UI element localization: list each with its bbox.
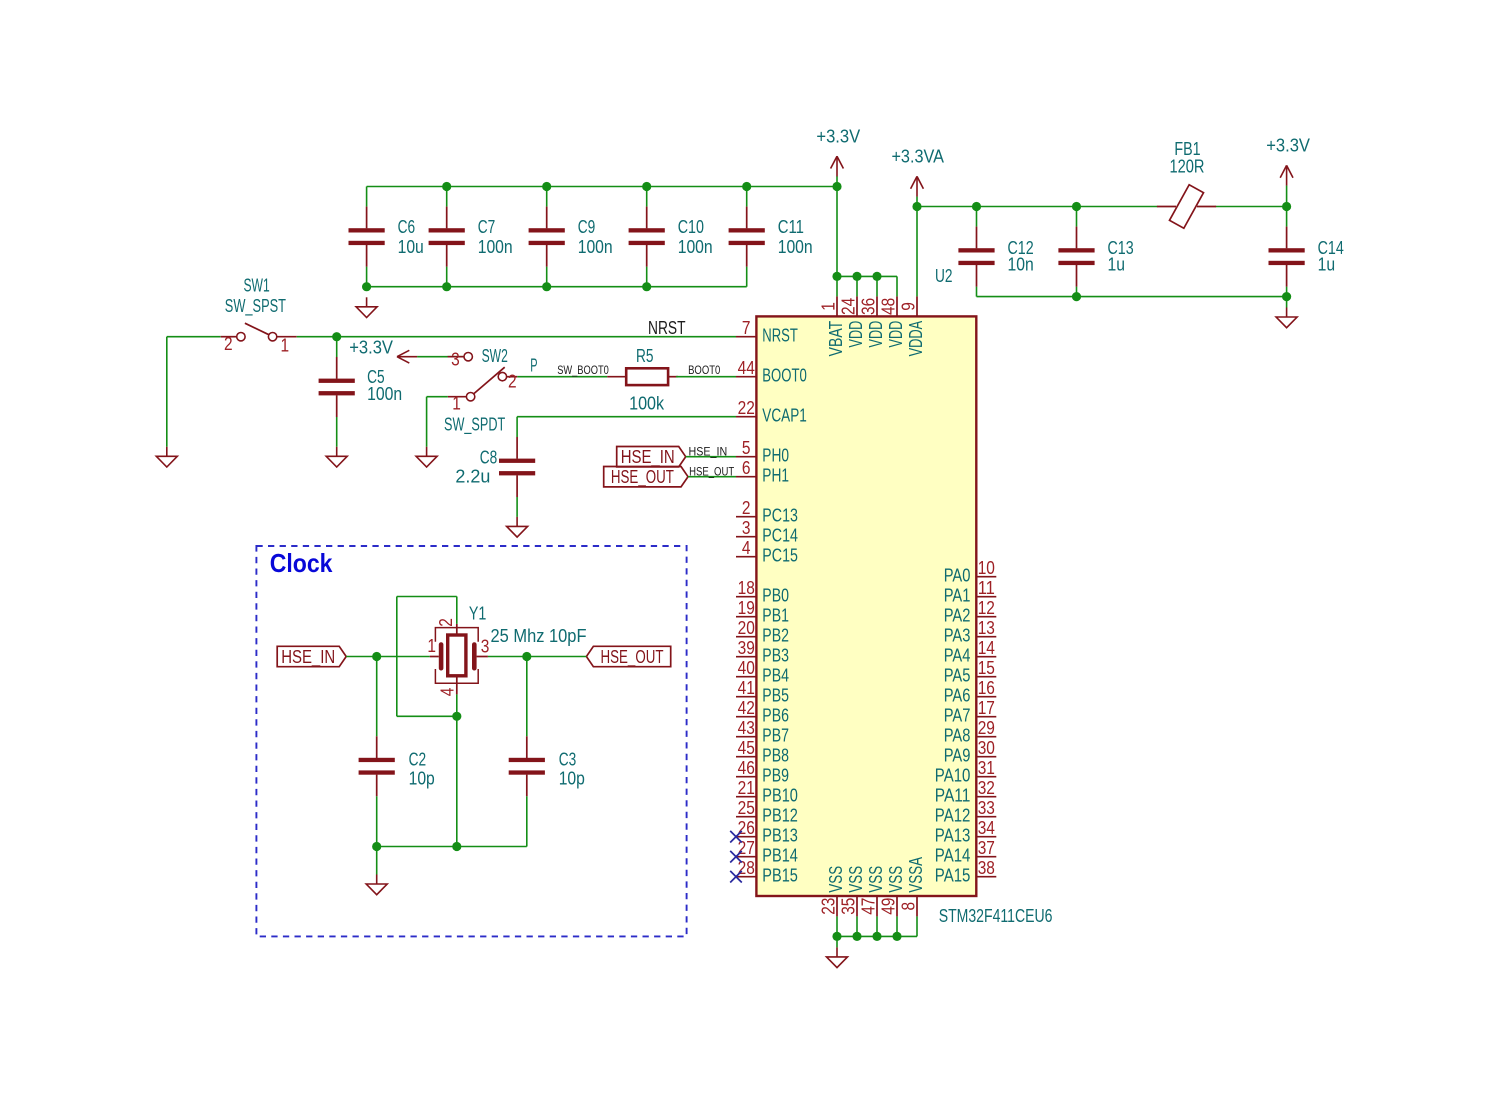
pin 8 VSSA <box>898 857 926 916</box>
svg-text:100n: 100n <box>367 384 402 404</box>
svg-text:34: 34 <box>978 818 995 838</box>
svg-text:10p: 10p <box>409 768 435 788</box>
wire C10 bottom lead <box>646 267 648 287</box>
wire VDD bus <box>837 275 897 277</box>
wire C3 top lead <box>526 657 528 737</box>
hierarchical label HSE_IN clock <box>277 646 346 668</box>
svg-text:2: 2 <box>436 618 456 627</box>
wire C14 bottom lead <box>1286 287 1288 297</box>
pin 11 PA1 <box>944 578 997 606</box>
junction bottom rail <box>642 282 651 291</box>
svg-text:C3: C3 <box>559 749 577 769</box>
wire VCAP1 horizontal <box>517 416 736 418</box>
junction crystal pin4 / jumper <box>452 712 461 721</box>
wire pin4 to gnd rail <box>456 716 458 846</box>
svg-text:33: 33 <box>978 798 995 818</box>
wire jumper bottom <box>397 715 457 717</box>
svg-text:PA1: PA1 <box>944 586 971 606</box>
svg-text:SW_BOOT0: SW_BOOT0 <box>557 365 609 377</box>
pin 5 PH0 <box>736 438 789 466</box>
svg-text:41: 41 <box>738 678 755 698</box>
wire C8 gnd lead <box>516 497 518 517</box>
junction VDD bus <box>852 272 861 281</box>
ground left of SW1 <box>156 447 177 467</box>
capacitor C2 <box>359 736 435 796</box>
svg-text:38: 38 <box>978 858 995 878</box>
svg-text:100n: 100n <box>778 237 813 257</box>
svg-text:PB5: PB5 <box>762 686 789 706</box>
junction C2 top <box>372 652 381 661</box>
junction VSS bus <box>872 932 881 941</box>
svg-text:PB10: PB10 <box>762 786 798 806</box>
pin 23 VSS <box>818 866 846 917</box>
wire C14 gnd stub <box>1286 297 1288 308</box>
capacitor C10 <box>629 207 713 267</box>
svg-text:1u: 1u <box>1108 254 1126 274</box>
svg-text:10n: 10n <box>1008 254 1034 274</box>
wire VDD pin stub <box>876 276 878 296</box>
pin 39 PB3 <box>736 638 789 666</box>
switch SW2 SW_SPDT <box>448 353 518 401</box>
svg-text:PA4: PA4 <box>944 646 971 666</box>
pin 31 PA10 <box>935 758 996 786</box>
junction bottom rail <box>542 282 551 291</box>
svg-text:21: 21 <box>738 778 755 798</box>
svg-text:PA7: PA7 <box>944 706 971 726</box>
wire C12 bottom lead <box>976 287 978 297</box>
svg-text:100n: 100n <box>578 237 613 257</box>
pin 40 PB4 <box>736 658 789 686</box>
power +3.3V at SW2 <box>349 338 417 364</box>
wire +3.3V right stem <box>1286 186 1288 207</box>
wire C7 bottom lead <box>446 267 448 287</box>
no-connect X <box>730 871 742 883</box>
junction VDD bus <box>832 272 841 281</box>
junction NRST / C5 <box>332 332 341 341</box>
svg-text:10p: 10p <box>559 768 585 788</box>
capacitor C14 <box>1269 227 1344 287</box>
svg-text:23: 23 <box>818 898 838 915</box>
svg-text:HSE_IN: HSE_IN <box>621 447 675 468</box>
svg-text:20: 20 <box>738 618 755 638</box>
junction top rail <box>642 182 651 191</box>
power +3.3VA <box>891 147 944 197</box>
wire SW2 pin1 horizontal <box>427 396 448 398</box>
junction bottom rail <box>362 282 371 291</box>
pin 24 VDD <box>838 296 866 347</box>
junction C14 top / +3.3V <box>1282 202 1291 211</box>
svg-text:42: 42 <box>738 698 755 718</box>
wire VSS pin stub <box>876 916 878 936</box>
svg-text:14: 14 <box>978 638 995 658</box>
junction top rail <box>442 182 451 191</box>
svg-text:C9: C9 <box>578 217 596 237</box>
pin 6 PH1 <box>736 458 789 486</box>
svg-text:BOOT0: BOOT0 <box>688 365 720 377</box>
pin 22 VCAP1 <box>736 398 807 426</box>
svg-text:HSE_IN: HSE_IN <box>689 447 728 459</box>
svg-text:PA5: PA5 <box>944 666 971 686</box>
svg-text:120R: 120R <box>1170 157 1205 177</box>
wire VDD pin stub <box>856 276 858 296</box>
svg-text:Y1: Y1 <box>469 604 487 624</box>
svg-text:13: 13 <box>978 618 995 638</box>
svg-text:C7: C7 <box>478 217 496 237</box>
svg-text:PC13: PC13 <box>762 506 798 526</box>
svg-text:PA11: PA11 <box>935 786 971 806</box>
svg-text:16: 16 <box>978 678 995 698</box>
svg-text:4: 4 <box>438 688 458 697</box>
pin 32 PA11 <box>935 778 996 806</box>
svg-text:22: 22 <box>738 398 755 418</box>
wire VSSA drop <box>916 916 918 936</box>
wire VSS bus <box>837 935 917 937</box>
svg-text:9: 9 <box>898 302 918 311</box>
pin 34 PA13 <box>935 818 996 846</box>
wire C2 top lead <box>376 657 378 737</box>
svg-text:VSS: VSS <box>866 866 886 893</box>
junction bottom rail <box>442 282 451 291</box>
svg-text:4: 4 <box>742 538 751 558</box>
junction C13 bottom <box>1072 292 1081 301</box>
svg-text:11: 11 <box>978 578 995 598</box>
svg-text:3: 3 <box>451 350 460 370</box>
svg-text:PB15: PB15 <box>762 866 798 886</box>
svg-text:+3.3V: +3.3V <box>349 338 393 358</box>
svg-text:PB14: PB14 <box>762 846 798 866</box>
svg-text:10u: 10u <box>398 237 424 257</box>
svg-text:43: 43 <box>738 718 755 738</box>
svg-text:PH1: PH1 <box>762 466 789 486</box>
wire analog gnd rail <box>977 296 1287 298</box>
pin 28 PB15 <box>736 858 798 886</box>
wire VDD pin stub <box>836 276 838 296</box>
ground under VSS <box>827 947 848 967</box>
pin 17 PA7 <box>944 698 997 726</box>
wire C9 top lead <box>546 187 548 207</box>
svg-text:PB9: PB9 <box>762 766 789 786</box>
pin 33 PA12 <box>935 798 996 826</box>
wire VSS pin stub <box>836 916 838 936</box>
wire NRST left of SW1 <box>167 336 221 338</box>
no-connect X <box>730 831 742 843</box>
switch SW1 SW_SPST <box>221 323 297 341</box>
wire +3.3V drop to VDD bus <box>836 176 838 276</box>
svg-text:40: 40 <box>738 658 755 678</box>
svg-text:PB1: PB1 <box>762 606 789 626</box>
svg-text:C2: C2 <box>409 749 427 769</box>
svg-text:VSSA: VSSA <box>906 857 926 893</box>
hierarchical label HSE_OUT <box>604 467 688 489</box>
junction VSS bus <box>892 932 901 941</box>
wire analog rail right of FB1 <box>1216 206 1287 208</box>
svg-text:1: 1 <box>818 302 838 311</box>
svg-text:PA10: PA10 <box>935 766 971 786</box>
ferrite bead FB1 <box>1157 185 1216 228</box>
svg-text:PB8: PB8 <box>762 746 789 766</box>
svg-text:1u: 1u <box>1318 254 1336 274</box>
pin 16 PA6 <box>944 678 997 706</box>
junction C14 bottom / gnd <box>1282 292 1291 301</box>
svg-text:HSE_IN: HSE_IN <box>281 647 335 668</box>
capacitor C12 <box>958 227 1033 287</box>
svg-text:47: 47 <box>858 898 878 915</box>
svg-text:1: 1 <box>281 335 290 355</box>
svg-text:BOOT0: BOOT0 <box>762 366 807 386</box>
svg-text:C10: C10 <box>678 217 704 237</box>
pin 9 VDDA <box>898 296 926 356</box>
svg-text:36: 36 <box>858 298 878 315</box>
svg-text:PB13: PB13 <box>762 826 798 846</box>
wire C6 top lead <box>366 187 368 207</box>
junction +3.3VA / analog rail <box>912 202 921 211</box>
wire C6 bottom lead <box>366 267 368 287</box>
pin 2 PC13 <box>736 498 798 526</box>
ground under C6 <box>356 297 377 317</box>
svg-text:NRST: NRST <box>648 318 686 338</box>
svg-text:PC15: PC15 <box>762 546 798 566</box>
ground under C14 <box>1276 308 1297 328</box>
svg-text:PB12: PB12 <box>762 806 798 826</box>
wire C7 top lead <box>446 187 448 207</box>
svg-text:PB3: PB3 <box>762 646 789 666</box>
capacitor C11 <box>729 207 813 267</box>
svg-text:C8: C8 <box>480 448 498 468</box>
wire clock gnd rail <box>377 846 527 848</box>
IC U2 STM32F411CEU6 body <box>756 316 976 896</box>
pin 15 PA5 <box>944 658 997 686</box>
ground under SW2 <box>416 447 437 467</box>
svg-text:100n: 100n <box>678 237 713 257</box>
wire bottom rail GND <box>367 286 747 288</box>
wire clock gnd stub <box>376 847 378 875</box>
wire HSE_IN to PH0 <box>686 456 736 458</box>
svg-text:49: 49 <box>878 898 898 915</box>
svg-text:6: 6 <box>742 458 751 478</box>
pin 48 VDD <box>878 296 906 347</box>
wire C13 bottom lead <box>1076 287 1078 297</box>
wire C14 top lead <box>1286 207 1288 227</box>
pin 21 PB10 <box>736 778 798 806</box>
wire SW1 left drop to gnd <box>166 337 168 447</box>
resistor R5 <box>607 368 678 385</box>
wire C13 top lead <box>1076 207 1078 227</box>
svg-text:U2: U2 <box>935 266 953 286</box>
svg-text:44: 44 <box>738 358 755 378</box>
svg-text:VDD: VDD <box>886 321 906 348</box>
pin 12 PA2 <box>944 598 997 626</box>
junction VSS bus <box>832 932 841 941</box>
wire +3.3VA to VDDA pin <box>916 197 918 297</box>
pin 14 PA4 <box>944 638 997 666</box>
junction C2 / gnd rail <box>372 842 381 851</box>
svg-text:VDD: VDD <box>866 321 886 348</box>
svg-text:7: 7 <box>742 318 751 338</box>
svg-text:VSS: VSS <box>846 866 866 893</box>
capacitor C3 <box>509 736 585 796</box>
svg-text:C6: C6 <box>398 217 416 237</box>
svg-text:Clock: Clock <box>270 548 333 578</box>
pin 46 PB9 <box>736 758 789 786</box>
power +3.3V right <box>1266 136 1310 186</box>
svg-text:SW1: SW1 <box>244 276 270 296</box>
svg-text:37: 37 <box>978 838 995 858</box>
pin 43 PB7 <box>736 718 789 746</box>
pin 30 PA9 <box>944 738 997 766</box>
pin 37 PA14 <box>935 838 996 866</box>
pin 35 VSS <box>838 866 866 917</box>
crystal Y1 <box>430 624 488 695</box>
junction C3 top <box>522 652 531 661</box>
svg-text:PA13: PA13 <box>935 826 971 846</box>
pin 10 PA0 <box>944 558 997 586</box>
wire C9 bottom lead <box>546 267 548 287</box>
svg-text:R5: R5 <box>636 346 654 366</box>
svg-text:2.2u: 2.2u <box>455 467 490 487</box>
svg-text:19: 19 <box>738 598 755 618</box>
svg-text:12: 12 <box>978 598 995 618</box>
svg-text:PB6: PB6 <box>762 706 789 726</box>
svg-text:3: 3 <box>481 637 490 657</box>
svg-text:46: 46 <box>738 758 755 778</box>
svg-text:PA15: PA15 <box>935 866 971 886</box>
pin 41 PB5 <box>736 678 789 706</box>
pin 26 PB13 <box>736 818 798 846</box>
wire crystal to HSE_OUT <box>488 656 587 658</box>
svg-text:PA14: PA14 <box>935 846 971 866</box>
svg-text:2: 2 <box>508 372 517 392</box>
svg-text:PC14: PC14 <box>762 526 798 546</box>
hierarchical label HSE_IN <box>617 447 686 469</box>
svg-text:8: 8 <box>898 902 918 911</box>
svg-text:45: 45 <box>738 738 755 758</box>
wire VSS gnd stub <box>836 936 838 947</box>
wire NRST to pin 7 <box>297 336 736 338</box>
wire C3 bottom lead <box>526 796 528 846</box>
junction top rail <box>542 182 551 191</box>
wire VSS pin stub <box>896 916 898 936</box>
pin 4 PC15 <box>736 538 798 566</box>
svg-text:VCAP1: VCAP1 <box>762 406 807 426</box>
svg-text:HSE_OUT: HSE_OUT <box>689 467 734 479</box>
ground under C8 <box>507 517 528 537</box>
svg-text:PB7: PB7 <box>762 726 789 746</box>
wire C11 top lead <box>746 187 748 207</box>
wire C10 top lead <box>646 187 648 207</box>
pin 13 PA3 <box>944 618 997 646</box>
pin 25 PB12 <box>736 798 798 826</box>
svg-text:39: 39 <box>738 638 755 658</box>
svg-text:100k: 100k <box>629 394 665 414</box>
svg-text:HSE_OUT: HSE_OUT <box>611 467 674 488</box>
svg-text:VSS: VSS <box>886 866 906 893</box>
svg-text:P: P <box>530 356 537 376</box>
junction +3.3V / top rail <box>832 182 841 191</box>
wire C5 bottom lead <box>336 417 338 447</box>
svg-text:1: 1 <box>452 394 461 414</box>
wire analog rail left of FB1 <box>917 206 1157 208</box>
svg-text:HSE_OUT: HSE_OUT <box>601 647 664 668</box>
wire C12 top lead <box>976 207 978 227</box>
wire SW2 pin3 to +3.3V <box>417 356 464 358</box>
junction VSS bus <box>852 932 861 941</box>
svg-text:PB2: PB2 <box>762 626 789 646</box>
capacitor C6 <box>349 207 424 267</box>
no-connect X <box>730 851 742 863</box>
wire BOOT0 net to pin 44 <box>676 376 736 378</box>
wire jumper left <box>396 597 398 717</box>
svg-text:25: 25 <box>738 798 755 818</box>
capacitor C9 <box>529 207 613 267</box>
wire jumper top <box>397 596 457 598</box>
svg-text:VDD: VDD <box>846 321 866 348</box>
pin 18 PB0 <box>736 578 789 606</box>
wire top rail +3.3V <box>367 186 837 188</box>
svg-text:VBAT: VBAT <box>826 321 846 357</box>
svg-text:25 Mhz 10pF: 25 Mhz 10pF <box>491 626 587 646</box>
svg-text:31: 31 <box>978 758 995 778</box>
svg-text:SW_SPDT: SW_SPDT <box>444 415 505 436</box>
svg-text:35: 35 <box>838 898 858 915</box>
svg-text:24: 24 <box>838 298 858 315</box>
pin 44 BOOT0 <box>736 358 807 386</box>
svg-text:2: 2 <box>742 498 751 518</box>
hierarchical label HSE_OUT clock <box>586 646 670 668</box>
pin 38 PA15 <box>935 858 996 886</box>
pin 45 PB8 <box>736 738 789 766</box>
svg-text:SW2: SW2 <box>482 346 508 366</box>
svg-text:VDDA: VDDA <box>906 321 926 357</box>
svg-text:5: 5 <box>742 438 751 458</box>
clock section dashed box <box>256 546 686 936</box>
svg-text:15: 15 <box>978 658 995 678</box>
wire VDD pin stub <box>896 276 898 296</box>
wire VSS pin stub <box>856 916 858 936</box>
svg-text:3: 3 <box>742 518 751 538</box>
junction pin4 / gnd rail <box>452 842 461 851</box>
wire C11 bottom lead <box>746 267 748 287</box>
pin 29 PA8 <box>944 718 997 746</box>
power +3.3V top <box>816 126 860 176</box>
svg-text:SW_SPST: SW_SPST <box>225 296 286 317</box>
svg-text:18: 18 <box>738 578 755 598</box>
wire SW2 pin1 drop <box>426 397 428 447</box>
svg-text:10: 10 <box>978 558 995 578</box>
wire C5 top lead <box>336 337 338 357</box>
svg-text:STM32F411CEU6: STM32F411CEU6 <box>939 906 1053 926</box>
wire VCAP1 drop to C8 <box>516 417 518 437</box>
svg-text:PA0: PA0 <box>944 566 971 586</box>
wire HSE_IN to crystal <box>346 656 430 658</box>
pin 7 NRST <box>736 318 798 346</box>
svg-text:+3.3V: +3.3V <box>816 126 860 146</box>
capacitor C7 <box>429 207 513 267</box>
wire SW_BOOT0 net <box>517 376 607 378</box>
svg-text:PA6: PA6 <box>944 686 971 706</box>
svg-text:29: 29 <box>978 718 995 738</box>
junction C13 top <box>1072 202 1081 211</box>
pin 42 PB6 <box>736 698 789 726</box>
capacitor C8 <box>455 437 535 497</box>
pin 19 PB1 <box>736 598 789 626</box>
pin 3 PC14 <box>736 518 798 546</box>
svg-text:48: 48 <box>878 298 898 315</box>
svg-text:+3.3V: +3.3V <box>1266 136 1310 156</box>
pin 27 PB14 <box>736 838 798 866</box>
pin 47 VSS <box>858 866 886 917</box>
svg-text:NRST: NRST <box>762 326 798 346</box>
svg-text:VSS: VSS <box>826 866 846 893</box>
